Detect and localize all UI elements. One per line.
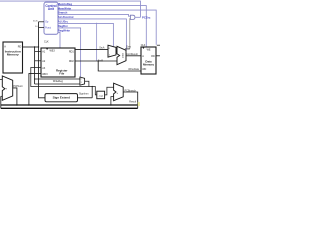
svg-text:SrcB: SrcB (98, 60, 104, 63)
svg-text:RD2: RD2 (69, 60, 74, 63)
svg-text:+: + (5, 87, 7, 91)
svg-text:1: 1 (81, 82, 82, 84)
wire Funct input stub (39, 26, 45, 29)
wire SignImm (78, 96, 93, 99)
svg-text:Zero: Zero (126, 45, 132, 48)
wire Rt to RegDst mux 0 (35, 78, 80, 81)
svg-text:RegWrite: RegWrite (58, 29, 71, 33)
shift left 2 box (97, 91, 105, 99)
svg-text:<<2: <<2 (99, 95, 104, 98)
wire bottom bus 2 (1, 106, 138, 111)
wire Op input stub (39, 20, 45, 23)
svg-text:WE3: WE3 (50, 49, 56, 52)
svg-text:SignImm: SignImm (79, 93, 88, 96)
wire PCPlus4 into branch adder (111, 97, 114, 105)
svg-text:PCPlus4: PCPlus4 (13, 85, 23, 88)
wire PC into adder (0, 78, 2, 81)
svg-text:RD: RD (151, 55, 155, 58)
wire bottom bus 1 (1, 102, 138, 107)
svg-text:RD1: RD1 (69, 51, 74, 54)
wire ReadData stub (156, 54, 160, 57)
svg-text:MemtoReg: MemtoReg (58, 2, 73, 6)
control unit U-CTRL (44, 2, 58, 34)
svg-text:Result: Result (129, 101, 136, 104)
svg-text:WriteData: WriteData (128, 68, 139, 71)
svg-text:ALUResult: ALUResult (126, 53, 138, 56)
junction dots (16, 46, 111, 105)
text control signal labels (58, 2, 151, 33)
wire PCBranch out (123, 92, 138, 108)
svg-text:MemWrite: MemWrite (58, 6, 72, 10)
wire ALUResult (126, 54, 141, 57)
register file box (41, 48, 75, 77)
wire RD2 / SrcB (75, 59, 117, 62)
wire Branch L3 (58, 14, 130, 16)
junction artifact yellow (138, 102, 140, 106)
wire instr vertical branch A (33, 47, 36, 84)
adder PCBranch (114, 83, 124, 101)
wire Zero out (125, 47, 130, 50)
svg-text:CLK: CLK (141, 44, 146, 47)
wire AND gate output (135, 16, 140, 19)
svg-text:ALUControl: ALUControl (58, 15, 74, 19)
clock triangle regfile (46, 48, 48, 50)
svg-text:RD: RD (18, 46, 22, 49)
svg-text:31:26: 31:26 (33, 20, 38, 22)
wire instruction bus (23, 45, 39, 48)
svg-text:5:0: 5:0 (35, 26, 38, 28)
wire RegWrite L7 (58, 32, 60, 48)
svg-text:ALU: ALU (121, 53, 124, 58)
svg-text:Unit: Unit (48, 7, 55, 11)
text instruction memory (4, 46, 21, 57)
wire shl2 out to branch adder (105, 87, 114, 95)
wire RegDst L6 (58, 28, 81, 77)
wire ALUSrc L5 (58, 23, 113, 46)
svg-text:File: File (59, 71, 64, 75)
clock triangle data memory (142, 47, 144, 49)
text data memory (142, 49, 155, 71)
svg-text:WE: WE (147, 49, 151, 52)
MIPS single-cycle processor datapath schematic (0, 0, 160, 120)
mux RegDst (80, 77, 85, 85)
svg-text:0: 0 (81, 78, 82, 80)
ALU U2 (117, 46, 126, 64)
svg-text:PCBranch: PCBranch (125, 89, 137, 92)
text register file ports (42, 49, 74, 76)
sign extend box (45, 94, 78, 102)
wire lower adder input (1, 95, 3, 98)
wire instr vertical branch B (39, 22, 46, 98)
text control unit (45, 4, 56, 11)
svg-text:Memory: Memory (143, 62, 154, 66)
junction ALUSrc tap (96, 23, 97, 24)
svg-text:PCSrc: PCSrc (142, 15, 151, 19)
wire to shl2 input (89, 87, 97, 95)
wire ALUControl L4 (58, 19, 126, 50)
wire PCSrc top run (0, 1, 141, 17)
adder PCPlus4 (2, 76, 12, 100)
svg-text:WD3: WD3 (42, 73, 48, 76)
wire mux out to ALU (116, 50, 117, 53)
svg-text:CLK: CLK (44, 40, 49, 43)
wire left edge vertical (0, 96, 3, 108)
svg-text:SrcA: SrcA (99, 46, 105, 49)
svg-text:0: 0 (109, 48, 110, 50)
svg-text:Memory: Memory (7, 52, 19, 56)
wire Rd to RegDst mux 1 (35, 83, 80, 86)
wire WriteData down and right (98, 61, 141, 71)
wire Zero vertical to gate (128, 17, 132, 20)
svg-text:1: 1 (109, 55, 110, 57)
wire SignImm riser to junction (90, 87, 93, 98)
wire 25:21 to A1 (35, 50, 41, 53)
wire MemWrite L2 (58, 10, 156, 45)
wire Result to WD3 (29, 74, 41, 105)
svg-text:WD: WD (142, 68, 146, 71)
wire RD1 / SrcA (75, 48, 108, 51)
mux SrcB (108, 45, 116, 57)
svg-text:WriteReg: WriteReg (53, 80, 64, 83)
AND gate PCSrc (130, 15, 135, 19)
wire 20:16 to A2 (35, 59, 41, 62)
data memory box (141, 47, 156, 74)
svg-text:Branch: Branch (58, 11, 68, 15)
instruction memory box (3, 42, 23, 73)
svg-text:Sign Extend: Sign Extend (53, 96, 71, 100)
wire PCPlus4 out (13, 88, 17, 105)
svg-text:RegDst: RegDst (58, 24, 68, 28)
svg-text:ALUSrc: ALUSrc (58, 20, 69, 24)
wire WriteReg return (31, 68, 89, 87)
wire ALUSrc tap / SignImm riser upper (95, 23, 98, 61)
node result mux sliver (157, 44, 160, 47)
wire MemtoReg L1 (58, 6, 146, 47)
